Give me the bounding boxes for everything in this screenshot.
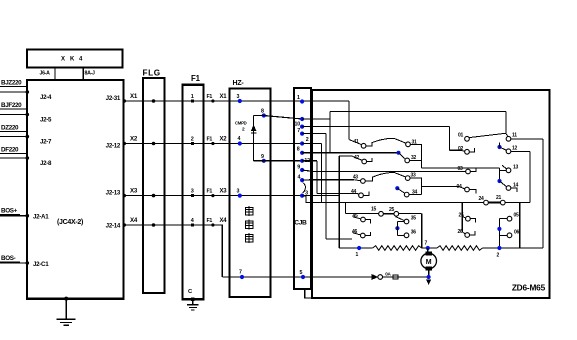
pin 7 [240, 275, 244, 279]
wire pivot 13/14 [499, 168, 501, 181]
svg-text:X3: X3 [220, 189, 228, 195]
junction 1 [357, 246, 361, 250]
svg-text:9: 9 [297, 165, 300, 171]
svg-text:8: 8 [261, 109, 264, 115]
contact 41 [349, 140, 362, 145]
fuse F1 terminal / node X3 [211, 194, 214, 197]
contact 32 [399, 153, 406, 159]
svg-text:X2: X2 [130, 136, 138, 143]
svg-text:9: 9 [261, 154, 264, 160]
svg-text:01: 01 [458, 133, 463, 139]
svg-text:J2-7: J2-7 [40, 139, 52, 146]
pin 12 [300, 159, 304, 163]
svg-text:F1: F1 [207, 137, 213, 143]
svg-text:7: 7 [297, 128, 300, 134]
contact 04 [469, 190, 476, 194]
wire 8 to CJB 10 [264, 116, 302, 120]
terminal strip FLG [143, 78, 165, 293]
wire to 01/11 pivot [505, 112, 507, 134]
contact 31 [410, 144, 421, 168]
svg-text:25: 25 [389, 207, 394, 213]
svg-text:J2-4: J2-4 [40, 94, 52, 101]
connector CJB [294, 88, 311, 289]
svg-text:3: 3 [237, 189, 240, 195]
svg-text:7: 7 [425, 241, 428, 247]
wire [0, 215, 27, 217]
svg-text:FLG: FLG [143, 69, 161, 78]
contact 12 [500, 147, 507, 150]
svg-text:BJZ220: BJZ220 [1, 80, 22, 87]
label cable station (CJK) [245, 206, 253, 216]
wire pin1 to contact 41 [348, 101, 350, 140]
contact 26 [462, 232, 465, 234]
svg-text:ZD6-M65: ZD6-M65 [512, 283, 546, 293]
contact 36 [397, 234, 404, 236]
svg-text:1: 1 [191, 94, 194, 100]
wire X1 row [124, 100, 349, 102]
svg-text:BOS+: BOS+ [1, 208, 18, 215]
contact 33 [410, 178, 422, 195]
svg-text:M: M [426, 259, 432, 266]
svg-text:31: 31 [412, 140, 417, 146]
contact 01 [469, 133, 505, 137]
wire [483, 247, 544, 249]
pin 8 [300, 151, 304, 155]
svg-text:44: 44 [351, 189, 356, 195]
contact 44 [357, 193, 359, 194]
fuse F1 terminal / node X1 [211, 99, 214, 102]
junction [497, 227, 501, 231]
wire pivot 35/36 [396, 222, 398, 236]
wire CJB to box bottom [305, 289, 312, 298]
wire tail to 04 [421, 187, 465, 189]
svg-text:7: 7 [239, 270, 242, 276]
wire pin8 run [302, 152, 398, 154]
svg-text:21: 21 [496, 195, 501, 201]
wire pin12 to contact 44 [317, 192, 357, 194]
svg-text:8A-J: 8A-J [85, 71, 95, 77]
crossover hook [303, 183, 306, 193]
wire motor to bottom row [428, 271, 430, 277]
wire pivot 25/26 [461, 203, 463, 232]
svg-text:J6-A: J6-A [40, 71, 51, 77]
pin C [191, 298, 194, 301]
contact 25 [462, 216, 466, 218]
wire [0, 262, 27, 264]
svg-text:J2-8: J2-8 [40, 160, 52, 167]
svg-text:X1: X1 [130, 93, 138, 100]
svg-text:K: K [70, 57, 75, 63]
svg-text:J2-A1: J2-A1 [33, 214, 49, 221]
junction [152, 194, 156, 198]
junction [427, 275, 431, 279]
svg-text:41: 41 [354, 139, 359, 145]
svg-text:8: 8 [297, 147, 300, 153]
svg-text:45: 45 [353, 213, 358, 219]
svg-text:J2-13: J2-13 [106, 190, 121, 197]
wire pin10 run [302, 126, 449, 128]
wire X2 row [124, 143, 303, 145]
svg-text:CJB: CJB [294, 220, 307, 227]
svg-text:J2-12: J2-12 [106, 143, 121, 150]
contact 43 [354, 180, 361, 181]
wire [0, 157, 27, 159]
svg-text:J2-5: J2-5 [40, 117, 52, 124]
svg-text:F1: F1 [207, 218, 213, 224]
svg-text:06: 06 [514, 230, 519, 236]
pin 8 [262, 113, 266, 117]
wire X4 row [124, 225, 223, 277]
contact 02 [461, 150, 465, 151]
pin [300, 117, 304, 121]
svg-text:46: 46 [352, 229, 357, 235]
inductor winding 2 [437, 246, 483, 251]
junction [395, 226, 399, 230]
fuse pin 4 [191, 223, 194, 226]
fuse F1 terminal / node X2 [211, 142, 214, 145]
pin 9 [300, 168, 304, 172]
svg-text:X2: X2 [220, 137, 228, 143]
contact 13 [502, 165, 507, 169]
contact pair 15/25 [379, 211, 384, 216]
pin 9 [262, 159, 266, 163]
wire run y111 [330, 111, 506, 113]
svg-text:12: 12 [512, 146, 517, 152]
svg-text:X4: X4 [220, 218, 228, 224]
junction [152, 223, 156, 227]
svg-text:F1: F1 [207, 94, 213, 100]
fuse block F1 [183, 85, 204, 300]
wire [422, 247, 437, 249]
svg-text:CMPD: CMPD [235, 121, 247, 126]
contact 06 [499, 234, 507, 236]
junction 7 [426, 246, 430, 250]
svg-text:J2-31: J2-31 [106, 95, 121, 102]
svg-text:33: 33 [411, 172, 416, 178]
junction [497, 179, 501, 183]
svg-text:1: 1 [356, 252, 359, 258]
wire pin12 run [302, 160, 317, 162]
contact 11 [506, 134, 508, 137]
svg-text:11: 11 [512, 133, 517, 139]
wire pin7 run [302, 133, 326, 135]
svg-text:X4: X4 [130, 217, 138, 224]
contact 34 [397, 188, 405, 193]
wire [0, 91, 27, 93]
svg-text:4: 4 [298, 175, 301, 181]
svg-text:J2-C1: J2-C1 [33, 261, 49, 268]
contact 35 [396, 217, 405, 221]
contact 46 [352, 233, 361, 235]
svg-text:DZ220: DZ220 [1, 125, 19, 132]
wire 12 hook down [529, 151, 531, 202]
svg-text:2: 2 [497, 253, 500, 259]
wire [0, 114, 27, 116]
wire pin link [302, 118, 330, 120]
wire 11 hook down [542, 139, 544, 248]
svg-text:03: 03 [458, 166, 463, 172]
svg-text:J2-14: J2-14 [106, 223, 121, 230]
svg-text:32: 32 [411, 155, 416, 161]
junction [152, 142, 156, 146]
wire common run y202 [302, 196, 530, 203]
wire pivot 05/06 [498, 219, 500, 248]
wire [0, 136, 27, 138]
wire motor supply row [222, 276, 428, 278]
wire facing row y213 [346, 213, 422, 215]
wire 43 to 33 [372, 172, 405, 177]
svg-text:X: X [61, 57, 65, 63]
svg-text:05: 05 [514, 213, 519, 219]
svg-text:10: 10 [295, 122, 301, 128]
arrow down [426, 280, 431, 285]
contact 42 [352, 156, 362, 160]
pin 7 [300, 132, 304, 136]
ground [192, 299, 194, 305]
svg-text:F1: F1 [207, 189, 213, 195]
pin 5 [301, 275, 305, 279]
junction 2 [497, 246, 501, 250]
junction [497, 145, 501, 149]
pin 1 [300, 99, 304, 103]
svg-text:35: 35 [411, 215, 416, 221]
pin 4 [300, 178, 304, 182]
wire 41 to 31 [372, 138, 406, 143]
svg-text:DF220: DF220 [1, 147, 19, 154]
vertical to facing row [519, 203, 521, 248]
svg-text:2: 2 [306, 137, 309, 143]
svg-text:X1: X1 [220, 94, 228, 100]
junction [395, 186, 399, 190]
svg-text:14: 14 [513, 182, 518, 188]
svg-text:43: 43 [353, 175, 358, 181]
svg-text:04: 04 [457, 184, 462, 190]
fuse F1 terminal / node X4 [211, 223, 214, 226]
svg-text:BJF220: BJF220 [1, 102, 22, 109]
wire 9 to CJB 12 [264, 160, 302, 162]
pin 3 [300, 194, 304, 198]
cable box HZ- [230, 89, 271, 298]
wire to motor [427, 248, 429, 253]
contact 0A [372, 274, 378, 280]
pin 10 [300, 125, 304, 129]
svg-text:X3: X3 [130, 188, 138, 195]
wire stub 8A-J [82, 67, 84, 80]
svg-text:F1: F1 [191, 74, 201, 83]
wire pin9 to contact 03 [302, 170, 466, 172]
wire X3 into box [338, 156, 340, 248]
svg-text:13: 13 [513, 165, 518, 171]
svg-text:1: 1 [297, 95, 300, 101]
svg-text:02: 02 [458, 146, 463, 152]
pin 3 [238, 99, 242, 103]
contact 05 [499, 218, 507, 220]
ground [64, 297, 68, 301]
wire pin4 to contact 43 [302, 179, 354, 181]
svg-text:15: 15 [371, 207, 376, 213]
svg-text:42: 42 [354, 155, 359, 161]
svg-text:3: 3 [237, 94, 240, 100]
svg-text:4: 4 [238, 136, 241, 142]
junction [152, 99, 156, 103]
wire stub J6-A [54, 67, 56, 80]
arrester CMPD 2 [253, 116, 255, 161]
contact 03 [470, 167, 476, 171]
fuse pin 2 [191, 142, 194, 145]
pin 4 [238, 141, 242, 145]
indicator unit box [27, 50, 123, 68]
svg-text:BOS-: BOS- [1, 255, 16, 262]
pin 3 [238, 194, 242, 198]
contact pair 24/21 [484, 200, 489, 205]
wire coil row [339, 247, 372, 249]
contact 14 [500, 181, 507, 186]
svg-text:3: 3 [191, 188, 194, 194]
svg-text:(JC4X-2): (JC4X-2) [57, 219, 83, 226]
motor M [421, 253, 437, 269]
svg-text:34: 34 [412, 189, 417, 195]
contact 45 [353, 217, 362, 219]
wire pin2 run [302, 143, 321, 145]
svg-text:5: 5 [300, 270, 303, 276]
svg-text:36: 36 [411, 230, 416, 236]
pin 2 [300, 141, 304, 145]
control unit (JC4X-2) [27, 80, 124, 299]
inductor winding 1 [373, 246, 422, 251]
fuse pin 1 [191, 99, 194, 102]
svg-text:HZ-: HZ- [233, 80, 245, 87]
wire X3 row [124, 195, 340, 197]
svg-text:25: 25 [459, 213, 464, 219]
svg-text:2: 2 [191, 136, 194, 142]
svg-text:24: 24 [479, 196, 484, 202]
wire tail to 13/14 pivot [421, 167, 499, 169]
junction [397, 151, 401, 155]
point machine ZD6-M65 [312, 90, 550, 298]
wire vertical [421, 214, 423, 248]
fuse pin 3 [191, 194, 194, 197]
